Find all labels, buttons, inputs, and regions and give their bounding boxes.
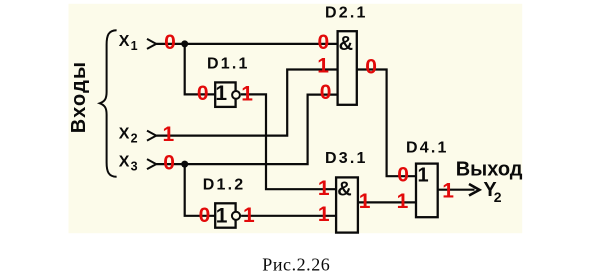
- svg-text:1: 1: [163, 123, 175, 146]
- svg-text:0: 0: [163, 151, 175, 174]
- label D4.1: [406, 139, 449, 156]
- svg-text:0: 0: [199, 204, 211, 227]
- svg-text:0: 0: [397, 163, 409, 186]
- red logic value 1 at X2 input: [163, 123, 175, 146]
- input marker X1: [147, 39, 156, 49]
- wire D1.2 output to D3.1 pin2: [241, 215, 336, 217]
- label D1.1: [207, 56, 250, 73]
- svg-text:0: 0: [320, 81, 332, 104]
- svg-text:1: 1: [318, 177, 330, 200]
- red logic value 1 at D1.1 output: [241, 82, 253, 105]
- wire D1.1 output down to D3.1 pin1: [241, 94, 336, 189]
- red logic value 0 at D2.1 output: [365, 56, 377, 79]
- wire X2 to D2.1 pin2: [156, 70, 337, 136]
- label Входы: [68, 61, 90, 134]
- label D3.1: [325, 150, 368, 167]
- red logic value 1 at D3.1 pin1: [318, 177, 330, 200]
- OR gate D4.1: [416, 164, 438, 218]
- NOT gate D1.2: [215, 203, 240, 227]
- label D1.2: [203, 176, 246, 193]
- red logic value 1 at D3.1 pin2: [318, 203, 330, 226]
- svg-text:0: 0: [365, 56, 377, 79]
- red logic value 0 at D1.2 input: [199, 204, 211, 227]
- red logic value 0 at D2.1 pin1: [318, 31, 330, 54]
- wire X3 junction down to D1.2 input: [185, 164, 216, 216]
- svg-text:&: &: [339, 33, 353, 55]
- input marker X2: [147, 131, 156, 141]
- caption Рис.2.26: [262, 254, 330, 274]
- svg-text:D1.2: D1.2: [203, 176, 246, 193]
- svg-text:Выход: Выход: [456, 158, 523, 180]
- svg-text:3: 3: [131, 160, 138, 174]
- svg-text:1: 1: [317, 55, 329, 78]
- svg-text:2: 2: [131, 132, 138, 146]
- svg-text:D3.1: D3.1: [325, 150, 368, 167]
- red logic value 0 at X3 input: [163, 151, 175, 174]
- svg-text:0: 0: [318, 31, 330, 54]
- svg-text:1: 1: [243, 204, 255, 227]
- junction X1: [181, 40, 188, 47]
- AND gate D3.1: [336, 177, 358, 232]
- svg-text:1: 1: [318, 203, 330, 226]
- svg-text:X: X: [119, 154, 130, 171]
- wire D3.1 output to D4.1 pin2: [358, 201, 416, 203]
- svg-text:2: 2: [494, 189, 502, 205]
- red logic value 0 at D2.1 pin3: [320, 81, 332, 104]
- svg-text:X: X: [119, 33, 130, 50]
- red logic value 1 at D4.1 pin2: [397, 190, 409, 213]
- red logic value 1 at D4.1 output: [442, 179, 454, 202]
- junction X3: [181, 161, 188, 168]
- svg-text:1: 1: [241, 82, 253, 105]
- NOT gate D1.1: [215, 82, 240, 107]
- svg-text:D4.1: D4.1: [406, 139, 449, 156]
- input label X3: [119, 154, 138, 174]
- svg-text:D1.1: D1.1: [207, 56, 250, 73]
- red logic value 1 at D3.1 output: [359, 190, 371, 213]
- svg-text:Входы: Входы: [68, 61, 90, 134]
- svg-text:1: 1: [359, 190, 371, 213]
- svg-text:1: 1: [397, 190, 409, 213]
- svg-text:0: 0: [197, 82, 209, 105]
- red logic value 0 at D4.1 pin1: [397, 163, 409, 186]
- svg-text:0: 0: [164, 31, 176, 54]
- wire D4.1 output with arrowhead: [438, 184, 480, 196]
- input brace: [100, 30, 117, 177]
- red logic value 1 at D1.2 output: [243, 204, 255, 227]
- red logic value 1 at D2.1 pin2: [317, 55, 329, 78]
- svg-text:X: X: [119, 126, 130, 143]
- output label Выход: [456, 158, 523, 180]
- input label X2: [119, 126, 138, 146]
- svg-text:1: 1: [442, 179, 454, 202]
- wire X3 to D2.1 pin3: [156, 95, 337, 165]
- label D2.1: [325, 5, 368, 22]
- input marker X3: [147, 159, 156, 169]
- svg-text:&: &: [337, 179, 351, 201]
- wire X1 junction down to D1.1 input: [185, 44, 216, 95]
- svg-text:Рис.2.26: Рис.2.26: [262, 254, 330, 274]
- svg-text:D2.1: D2.1: [325, 5, 368, 22]
- red logic value 0 at X1 input: [164, 31, 176, 54]
- wire D2.1 output down to D4.1 pin1: [357, 70, 416, 177]
- input label X1: [119, 33, 138, 53]
- svg-text:1: 1: [216, 204, 228, 227]
- svg-text:1: 1: [417, 165, 428, 187]
- red logic value 0 at D1.1 input: [197, 82, 209, 105]
- wire X1 to D2.1 pin1: [156, 43, 337, 45]
- svg-text:1: 1: [215, 82, 227, 105]
- AND gate D2.1: [338, 31, 357, 105]
- svg-text:1: 1: [131, 39, 138, 53]
- output label Y2: [483, 179, 501, 205]
